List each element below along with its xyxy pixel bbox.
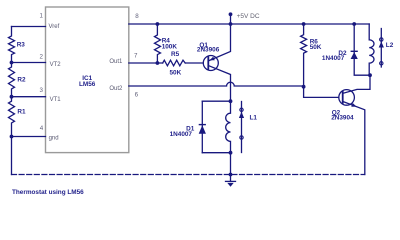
junction dot pin4 — [10, 135, 14, 139]
svg-text:L1: L1 — [250, 115, 258, 122]
svg-text:Out2: Out2 — [109, 86, 123, 92]
diode D1 triangle — [199, 125, 206, 134]
junction dot L1 bottom — [229, 151, 233, 155]
ground symbol triangle — [227, 183, 233, 187]
svg-text:6: 6 — [135, 91, 139, 98]
L2 plunger top circle — [380, 38, 383, 41]
resistor R1 — [9, 97, 15, 137]
svg-text:LM56: LM56 — [79, 81, 96, 88]
resistor R2 — [9, 63, 15, 97]
IC U1 LM56 box — [46, 7, 129, 153]
svg-text:L2: L2 — [386, 42, 394, 49]
transistor Q2 collector — [343, 75, 370, 93]
inductor L1 coil — [226, 101, 231, 153]
ground symbol stub — [230, 175, 232, 182]
diode D2 branch — [354, 24, 370, 75]
svg-text:1N4007: 1N4007 — [170, 131, 193, 138]
transistor Q2 bar — [342, 92, 344, 104]
+5V DC supply stub — [230, 15, 232, 24]
wire left chain down to ground rail — [11, 137, 13, 175]
junction dot L1 top — [229, 99, 233, 103]
junction dot R6 Out2 node — [302, 85, 306, 89]
svg-text:Vref: Vref — [49, 24, 60, 30]
transistor Q2 2N3904 circle — [339, 90, 355, 106]
D1 / L1 bottom bar — [202, 152, 230, 154]
svg-text:+5V DC: +5V DC — [237, 13, 260, 20]
L2 plunger arrow — [379, 42, 384, 48]
L2 plunger bottom circle — [380, 62, 383, 65]
transistor Q1 collector — [209, 66, 231, 101]
wire pin7 Out1 — [129, 62, 163, 64]
ground symbol bar — [226, 180, 236, 182]
resistor R3 — [9, 27, 15, 63]
svg-text:VT1: VT1 — [50, 97, 62, 103]
transistor Q1 bar — [207, 57, 209, 68]
svg-text:Thermostat using LM56: Thermostat using LM56 — [12, 189, 84, 196]
L1 plunger bottom circle — [240, 136, 243, 139]
D1 / L1 top bar — [202, 100, 230, 102]
diode D2 cathode bar — [351, 51, 358, 52]
junction dot pin2 — [10, 61, 14, 65]
svg-text:4: 4 — [40, 125, 44, 132]
svg-text:8: 8 — [135, 13, 139, 20]
supply dot +5V — [229, 12, 233, 16]
svg-text:Out1: Out1 — [109, 59, 123, 65]
L1 plunger arrow — [239, 112, 244, 118]
wire pin6 Out2 with hop over collector line — [129, 82, 304, 86]
svg-text:R3: R3 — [17, 42, 26, 49]
diode D1 cathode bar — [199, 124, 206, 125]
svg-text:VT2: VT2 — [50, 62, 62, 68]
svg-text:R2: R2 — [17, 76, 26, 83]
junction dot D2 L2 bottom — [368, 73, 372, 77]
resistor R4 — [155, 24, 161, 63]
L2 plunger line — [380, 29, 382, 68]
resistor R6 — [301, 24, 307, 87]
svg-text:7: 7 — [134, 53, 138, 60]
wire pin2 VT2 — [12, 62, 46, 64]
transistor Q2 emitter — [343, 102, 365, 175]
svg-text:R1: R1 — [17, 109, 26, 116]
wire pin3 VT1 — [12, 96, 46, 98]
junction dot ground rail — [229, 173, 233, 177]
svg-text:50K: 50K — [170, 70, 182, 77]
junction dot pin3 — [10, 95, 14, 99]
wire L1 bottom to ground rail — [230, 153, 232, 175]
junction dot R6 top — [302, 22, 306, 26]
svg-text:2: 2 — [40, 53, 44, 60]
wire top rail pin8 to +5V — [129, 23, 369, 25]
svg-text:1: 1 — [40, 13, 44, 20]
ground rail dashed — [12, 174, 365, 176]
wire R6/Out2 node to Q2 base — [304, 87, 339, 98]
diode D1 branch left — [201, 101, 203, 153]
junction dot R4 bottom — [156, 61, 160, 65]
Q2 emitter arrow — [351, 103, 356, 107]
svg-text:gnd: gnd — [49, 136, 59, 142]
L1 plunger top circle — [240, 108, 243, 111]
resistor R5 — [163, 60, 186, 66]
transistor Q1 emitter to +5V — [209, 24, 231, 61]
wire R5 to Q1 base — [185, 62, 203, 64]
svg-text:2N3904: 2N3904 — [331, 115, 354, 122]
svg-text:50K: 50K — [310, 44, 322, 51]
junction dot +5V rail — [229, 22, 233, 26]
wire pin1 Vref — [12, 26, 46, 28]
svg-text:2N3906: 2N3906 — [197, 47, 220, 54]
svg-text:100K: 100K — [162, 43, 178, 50]
svg-text:1N4007: 1N4007 — [322, 55, 345, 62]
inductor L2 coil — [369, 24, 374, 75]
L1 plunger line — [241, 102, 243, 153]
junction dot D2 top — [352, 22, 356, 26]
svg-text:R5: R5 — [171, 51, 180, 58]
wire pin4 gnd — [12, 136, 46, 138]
diode D2 triangle — [351, 52, 358, 59]
transistor Q1 2N3906 circle — [203, 56, 218, 71]
Q1 emitter arrow — [210, 57, 215, 61]
junction dot R4 top — [156, 22, 160, 26]
svg-text:3: 3 — [40, 87, 44, 94]
